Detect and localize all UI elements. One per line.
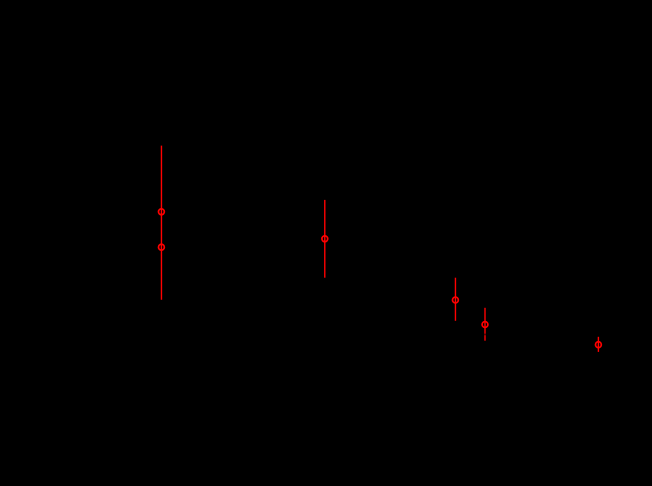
marker P2 <box>322 236 328 242</box>
error bar P4 <box>484 308 486 341</box>
marker P3 <box>453 297 459 303</box>
marker P4 <box>482 322 488 328</box>
error bar P5 <box>597 337 599 352</box>
dim junction on error bar P4 <box>484 334 487 336</box>
error bar P2 <box>324 200 326 278</box>
error bar P1 <box>160 146 162 300</box>
marker P1b <box>159 244 165 250</box>
marker P1a <box>159 209 165 215</box>
error bar P3 <box>454 278 456 321</box>
marker P5 <box>596 342 602 348</box>
